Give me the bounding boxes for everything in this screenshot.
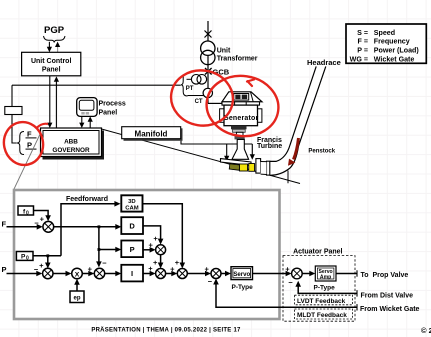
svg-text:PGP: PGP	[44, 25, 65, 36]
summing junction feedforward	[177, 269, 187, 279]
wire junction to I box	[105, 271, 122, 277]
wire I output to PID junction	[143, 271, 156, 277]
legend box	[346, 24, 426, 63]
summing junction F (speed error)	[43, 221, 54, 232]
svg-text:Transformer: Transformer	[217, 55, 258, 62]
box ep	[70, 291, 84, 303]
icon Process Panel	[77, 98, 97, 117]
turbine shaft	[232, 139, 249, 159]
box ABB Governor	[41, 128, 105, 160]
wire D output to PD junction	[143, 226, 163, 245]
junction dot F branch	[98, 225, 101, 228]
svg-text:P: P	[130, 245, 135, 254]
wire bus to generator	[208, 102, 222, 104]
box Unit Control Panel	[22, 52, 81, 76]
wire wicket gate feedback	[213, 279, 357, 308]
svg-text:0: 0	[26, 210, 29, 216]
svg-text:P =: P =	[357, 47, 368, 55]
svg-text:© 2: © 2	[421, 326, 431, 335]
pier under pipe elbow	[287, 171, 289, 184]
box f0	[18, 206, 34, 216]
svg-text:ABB: ABB	[64, 139, 78, 146]
penstock inner edge	[270, 66, 316, 161]
wire terminal down to F/P brace	[12, 115, 17, 144]
wire P output to PD junction	[143, 247, 156, 253]
wire multiplier to I-path junction	[82, 271, 94, 277]
svg-text:GOVERNOR: GOVERNOR	[52, 147, 90, 154]
pipe flange 1	[256, 159, 261, 174]
wire UCP down to ABB Governor	[47, 76, 52, 128]
brace under PGP	[44, 36, 66, 42]
svg-text:Panel: Panel	[99, 110, 118, 117]
wire F branch down to I-path junction	[96, 227, 102, 268]
svg-text:+: +	[153, 234, 158, 243]
wire actuator junction to Servo Amp	[302, 271, 315, 277]
wire Unit Control Panel up to PGP	[55, 42, 60, 52]
svg-text:+: +	[205, 264, 210, 273]
svg-text:From Dist Valve: From Dist Valve	[361, 293, 414, 300]
transformer PT	[191, 75, 206, 85]
box P0	[16, 252, 33, 262]
svg-text:Generator: Generator	[223, 115, 258, 122]
red circle F P	[0, 118, 47, 168]
dashed box LVDT Feedback	[295, 295, 353, 305]
dashed box MLDT Feedback	[295, 309, 353, 319]
svg-text:I: I	[131, 269, 133, 278]
summing junction P (power error)	[43, 268, 53, 278]
penstock pipe fill	[270, 66, 326, 175]
transformer CT	[203, 88, 212, 97]
terminal block	[5, 107, 22, 115]
svg-text:Unit Control: Unit Control	[31, 58, 71, 65]
svg-text:S =: S =	[357, 29, 368, 37]
svg-text:Frequency: Frequency	[374, 38, 410, 46]
svg-text:PRÄSENTATION | THEMA | 09.05.2: PRÄSENTATION | THEMA | 09.05.2022 | SEIT…	[91, 326, 241, 333]
tick wicket gate line	[356, 304, 358, 310]
svg-text:Speed: Speed	[374, 29, 395, 37]
wire PGP down to Unit Control Panel	[47, 42, 52, 52]
summing junction actuator	[292, 268, 303, 279]
svg-text:Panel: Panel	[42, 67, 61, 74]
label Process Panel	[99, 101, 126, 117]
wire governor up to Process Panel	[88, 116, 93, 128]
svg-text:GCB: GCB	[213, 67, 230, 76]
wire ABB Governor up to UCP	[54, 76, 59, 128]
wire PD junction down to PID junction	[158, 255, 164, 269]
brace PT CT	[181, 74, 188, 97]
svg-text:−: −	[34, 265, 39, 274]
wire P input	[7, 271, 43, 277]
wire servo junction to Servo box	[221, 271, 231, 277]
arrow into 3D CAM	[114, 201, 120, 207]
pipe section between flanges	[261, 162, 267, 175]
wire F input	[7, 224, 43, 230]
breaker GCB	[205, 68, 212, 75]
svg-text:Amp: Amp	[320, 274, 331, 280]
wire CAM output down to feedforward junction	[143, 204, 186, 269]
svg-text:−: −	[288, 278, 293, 287]
svg-text:P: P	[27, 141, 32, 150]
turbine assembly	[221, 159, 255, 172]
generator	[220, 92, 262, 140]
svg-text:+: +	[39, 261, 44, 270]
wire servo output to actuator	[253, 271, 292, 277]
wire generator bus vertical	[207, 21, 209, 103]
wire Servo Amp output to prop valve	[336, 270, 358, 276]
slope ground line	[102, 129, 301, 184]
wire F error line to D box	[54, 224, 122, 230]
svg-text:+: +	[175, 258, 180, 267]
summing junction PD	[156, 245, 166, 255]
svg-text:WG =: WG =	[350, 55, 368, 63]
svg-text:X: X	[75, 271, 80, 278]
wire P0 output	[33, 255, 61, 257]
svg-text:Wicket Gate: Wicket Gate	[374, 55, 415, 63]
svg-text:ep: ep	[73, 296, 80, 302]
svg-text:F =: F =	[358, 38, 368, 46]
svg-text:P-Type: P-Type	[232, 284, 254, 291]
brace F/P	[17, 132, 24, 155]
wire branch to P box	[99, 247, 121, 253]
dashed box Actuator Panel	[283, 256, 355, 322]
red circle hook F P	[36, 124, 48, 129]
box I	[121, 265, 143, 282]
summing junction I-path	[94, 268, 104, 278]
svg-text:CAM: CAM	[125, 206, 139, 212]
svg-text:MLDT Feedback: MLDT Feedback	[297, 312, 347, 319]
svg-text:Process: Process	[99, 101, 126, 108]
svg-text:Feedforward: Feedforward	[66, 196, 108, 203]
summing junction servo	[211, 269, 221, 279]
red hook generator top	[247, 80, 254, 87]
box Servo	[231, 267, 253, 280]
svg-text:Unit: Unit	[217, 47, 231, 54]
red circle PT CT	[167, 66, 237, 130]
svg-text:+: +	[153, 258, 158, 267]
svg-text:P: P	[2, 265, 7, 274]
svg-text:−: −	[102, 259, 107, 268]
svg-text:Servo: Servo	[233, 271, 250, 278]
svg-text:Turbine: Turbine	[257, 143, 282, 150]
svg-text:PT: PT	[186, 86, 194, 92]
wire feedforward junction to servo junction	[187, 271, 211, 277]
transformer Unit Transformer	[201, 41, 215, 65]
wire left drop to terminal	[11, 85, 13, 106]
box P	[121, 241, 143, 258]
wire LVDT feedback from dist valve	[295, 281, 357, 297]
svg-text:LVDT Feedback: LVDT Feedback	[297, 298, 346, 305]
red circle generator	[203, 71, 283, 140]
svg-text:3D: 3D	[128, 199, 136, 205]
svg-text:P-Type: P-Type	[314, 285, 336, 292]
svg-text:Headrace: Headrace	[307, 58, 341, 67]
wire f0 to F junction	[34, 211, 51, 222]
svg-text:+: +	[40, 214, 45, 223]
wire PID junction to feedforward junction	[166, 271, 178, 277]
svg-text:+: +	[88, 265, 93, 274]
wire ep up to multiplier	[74, 279, 80, 291]
wire signal bus horizontal	[12, 84, 181, 86]
wire Process Panel down to governor	[79, 116, 84, 128]
flow arrow red	[288, 138, 299, 166]
node P (underlined)	[26, 141, 37, 150]
penstock outer edge	[270, 66, 326, 175]
junction dot P0 branch	[46, 254, 49, 257]
svg-text:D: D	[129, 222, 135, 231]
svg-text:F: F	[27, 129, 32, 138]
svg-text:From Wicket Gate: From Wicket Gate	[360, 306, 420, 313]
breaker X top	[205, 31, 212, 38]
box 3D CAM	[121, 195, 142, 211]
svg-text:Penstock: Penstock	[308, 148, 335, 154]
svg-text:0: 0	[26, 256, 29, 262]
svg-text:Manifold: Manifold	[135, 130, 168, 139]
wire brace to CT	[188, 95, 204, 97]
box Servo Amp	[315, 266, 336, 281]
svg-text:To: To	[361, 272, 369, 279]
svg-text:F: F	[2, 219, 7, 228]
multiplier X	[72, 268, 83, 279]
wire feedforward riser	[61, 204, 117, 256]
wire manifold to wicket gate actuators	[181, 141, 255, 162]
label Unit Transformer	[217, 47, 258, 62]
node F (underlined)	[26, 129, 37, 138]
box Manifold	[122, 127, 183, 141]
zoom box (block diagram frame)	[14, 190, 280, 319]
summing junction PID	[156, 269, 166, 279]
pipe flange 2	[267, 161, 270, 175]
leader line governor to zoom box	[14, 130, 42, 190]
svg-text:Power (Load): Power (Load)	[374, 47, 420, 55]
junction dot F branch to P box	[98, 248, 101, 251]
wire P junction to multiplier	[53, 271, 72, 277]
svg-text:Prop Valve: Prop Valve	[373, 272, 409, 279]
svg-text:−: −	[208, 277, 213, 286]
label Francis Turbine	[257, 137, 282, 150]
wire P0 branch down to P junction	[45, 256, 51, 269]
svg-text:CT: CT	[195, 99, 203, 105]
box D	[121, 217, 143, 234]
svg-text:+: +	[285, 265, 290, 274]
wire brace to PT	[187, 78, 192, 80]
svg-text:−: −	[34, 219, 39, 228]
svg-text:Actuator Panel: Actuator Panel	[293, 248, 342, 255]
